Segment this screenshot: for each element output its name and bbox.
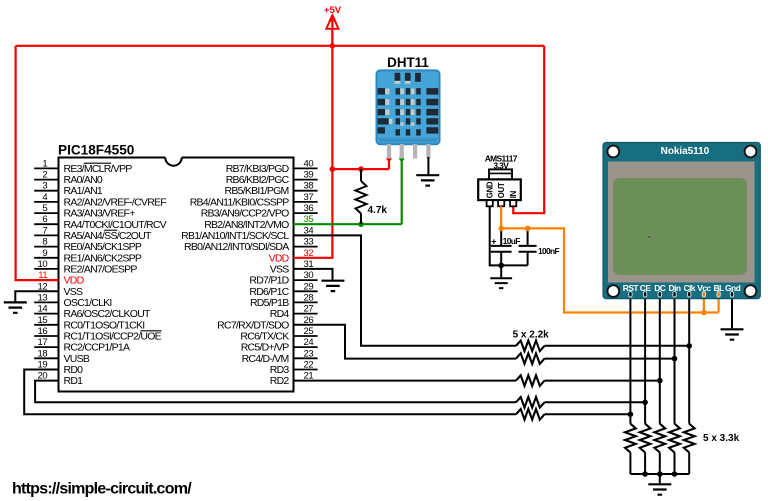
svg-text:RA5/AN4/SS/C2OUT: RA5/AN4/SS/C2OUT <box>64 230 153 242</box>
svg-text:PIC18F4550: PIC18F4550 <box>58 142 134 157</box>
svg-text:RA6/OSC2/CLKOUT: RA6/OSC2/CLKOUT <box>64 308 152 320</box>
svg-text:9: 9 <box>42 248 47 259</box>
svg-text:GND: GND <box>486 181 495 198</box>
svg-text:https://simple-circuit.com/: https://simple-circuit.com/ <box>12 481 192 498</box>
svg-text:VSS: VSS <box>270 263 290 275</box>
svg-text:16: 16 <box>38 326 48 337</box>
svg-text:OSC1/CLKI: OSC1/CLKI <box>64 297 112 309</box>
svg-text:RC4/D-/VM: RC4/D-/VM <box>242 353 289 365</box>
svg-text:30: 30 <box>304 270 314 281</box>
svg-text:18: 18 <box>38 348 48 359</box>
svg-text:4.7k: 4.7k <box>368 205 388 216</box>
svg-text:2: 2 <box>42 170 47 181</box>
svg-text:10uF: 10uF <box>503 236 520 246</box>
svg-text:RB3/AN9/CCP2/VPO: RB3/AN9/CCP2/VPO <box>201 208 289 220</box>
svg-text:RE0/AN5/CK1SPP: RE0/AN5/CK1SPP <box>64 241 142 253</box>
svg-text:14: 14 <box>38 304 48 315</box>
svg-text:RD1: RD1 <box>64 375 84 387</box>
svg-text:RA1/AN1: RA1/AN1 <box>64 185 103 197</box>
svg-text:RD7/P1D: RD7/P1D <box>249 275 289 287</box>
svg-text:RB4/AN11/KBI0/CSSPP: RB4/AN11/KBI0/CSSPP <box>190 196 290 208</box>
svg-text:13: 13 <box>38 292 48 303</box>
svg-text:+5V: +5V <box>324 5 342 16</box>
svg-text:RE2/AN7/OESPP: RE2/AN7/OESPP <box>64 263 138 275</box>
svg-text:4: 4 <box>42 192 47 203</box>
svg-text:+: + <box>491 237 496 247</box>
svg-text:RA3/AN3/VREF+: RA3/AN3/VREF+ <box>64 208 136 220</box>
svg-text:27: 27 <box>304 304 314 315</box>
svg-text:RC7/RX/DT/SDO: RC7/RX/DT/SDO <box>217 319 289 331</box>
svg-text:1: 1 <box>42 158 47 169</box>
svg-text:8: 8 <box>42 237 47 248</box>
svg-text:RA2/AN2/VREF-/CVREF: RA2/AN2/VREF-/CVREF <box>64 196 167 208</box>
svg-text:7: 7 <box>42 225 47 236</box>
svg-text:RB1/AN10/INT1/SCK/SCL: RB1/AN10/INT1/SCK/SCL <box>181 230 289 242</box>
svg-text:5 x 3.3k: 5 x 3.3k <box>703 433 740 444</box>
svg-text:100nF: 100nF <box>538 246 559 256</box>
svg-text:25: 25 <box>304 326 314 337</box>
svg-text:VUSB: VUSB <box>64 353 90 365</box>
svg-text:40: 40 <box>304 158 314 169</box>
svg-text:IN: IN <box>509 190 518 198</box>
svg-text:37: 37 <box>304 192 314 203</box>
svg-text:RD2: RD2 <box>270 375 290 387</box>
svg-text:22: 22 <box>304 360 314 371</box>
svg-text:36: 36 <box>304 203 314 214</box>
svg-text:38: 38 <box>304 181 314 192</box>
svg-text:23: 23 <box>304 348 314 359</box>
svg-text:33: 33 <box>304 237 314 248</box>
svg-text:RD5/P1B: RD5/P1B <box>250 297 289 309</box>
svg-text:17: 17 <box>38 337 48 348</box>
svg-text:RC5/D+/VP: RC5/D+/VP <box>241 342 290 354</box>
svg-text:RC0/T1OSO/T1CKI: RC0/T1OSO/T1CKI <box>64 319 145 331</box>
svg-text:RB7/KBI3/PGD: RB7/KBI3/PGD <box>226 163 290 175</box>
svg-text:RB0/AN12/INT0/SDI/SDA: RB0/AN12/INT0/SDI/SDA <box>184 241 289 253</box>
svg-text:3: 3 <box>42 181 47 192</box>
svg-text:VDD: VDD <box>64 275 85 287</box>
svg-text:39: 39 <box>304 170 314 181</box>
svg-text:5: 5 <box>42 203 47 214</box>
svg-text:RC2/CCP1/P1A: RC2/CCP1/P1A <box>64 342 130 354</box>
svg-text:24: 24 <box>304 337 314 348</box>
svg-text:28: 28 <box>304 292 314 303</box>
svg-text:5 x 2.2k: 5 x 2.2k <box>513 330 550 341</box>
svg-text:RE3/MCLR/VPP: RE3/MCLR/VPP <box>64 163 133 175</box>
svg-text:6: 6 <box>42 214 47 225</box>
svg-text:29: 29 <box>304 281 314 292</box>
svg-text:DHT11: DHT11 <box>387 55 429 70</box>
svg-text:Nokia5110: Nokia5110 <box>661 146 710 157</box>
svg-text:10: 10 <box>38 259 48 270</box>
svg-text:RD4: RD4 <box>270 308 290 320</box>
svg-text:OUT: OUT <box>497 182 506 198</box>
svg-text:15: 15 <box>38 315 48 326</box>
svg-text:RB5/KBI1/PGM: RB5/KBI1/PGM <box>225 185 289 197</box>
